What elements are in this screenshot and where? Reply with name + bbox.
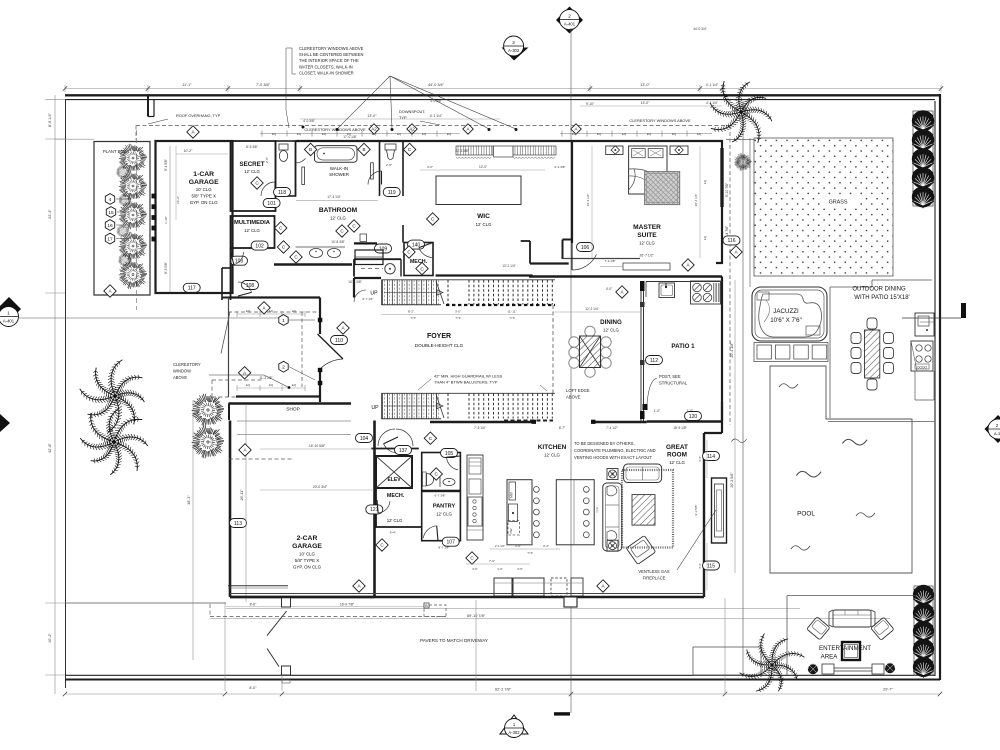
svg-text:3'-4": 3'-4"	[543, 544, 549, 548]
tag diamond A	[571, 124, 581, 134]
tag oval 113	[230, 519, 247, 528]
svg-text:A2: A2	[371, 127, 377, 132]
svg-text:EQ: EQ	[422, 132, 427, 136]
svg-text:TYP: TYP	[509, 316, 515, 320]
svg-text:10' CLG: 10' CLG	[196, 187, 213, 192]
right toilet	[385, 144, 396, 150]
right black bar + line	[961, 303, 966, 318]
section marker 2/A-401 top	[556, 7, 583, 34]
svg-text:ENTERTAINMENT: ENTERTAINMENT	[819, 645, 871, 652]
svg-text:117: 117	[188, 286, 196, 292]
svg-text:A-3: A-3	[994, 431, 1000, 436]
tag diamond C	[275, 222, 287, 234]
svg-text:10'6" X 7'6": 10'6" X 7'6"	[770, 317, 802, 324]
tag diamond C	[427, 213, 439, 225]
svg-text:EQ: EQ	[697, 132, 702, 136]
svg-text:12'-2 1/4": 12'-2 1/4"	[585, 307, 598, 311]
wc room below	[354, 258, 401, 260]
right dim col	[734, 280, 736, 573]
tag diamond A	[463, 124, 473, 134]
tag diamond A	[258, 302, 270, 314]
top dim row	[65, 88, 941, 90]
svg-text:11'-1": 11'-1"	[182, 83, 192, 87]
outdoor counter lines	[914, 371, 916, 400]
wic outer walls	[402, 141, 404, 196]
svg-text:10' CLG: 10' CLG	[299, 552, 316, 557]
stairs A centerline	[384, 292, 437, 294]
svg-text:A-302: A-302	[508, 730, 520, 735]
svg-text:18'-9 1/8": 18'-9 1/8"	[673, 426, 686, 430]
svg-text:17'-4 1/4": 17'-4 1/4"	[327, 195, 340, 199]
tag oval 119	[383, 188, 400, 197]
svg-text:WATER CLOSETS, WALK-IN: WATER CLOSETS, WALK-IN	[299, 64, 353, 69]
svg-text:FOYER: FOYER	[427, 333, 451, 340]
svg-text:102: 102	[255, 243, 264, 249]
tag diamond C	[403, 143, 415, 155]
svg-text:SHOP: SHOP	[286, 407, 300, 413]
kitchen north wall	[647, 420, 722, 422]
EQ tick row master	[560, 133, 712, 135]
svg-text:EQ: EQ	[292, 383, 297, 387]
great room east wall	[703, 433, 705, 597]
dining table	[569, 337, 579, 347]
svg-text:9'-3 5/8": 9'-3 5/8"	[694, 505, 698, 516]
svg-text:26'-11": 26'-11"	[240, 489, 244, 501]
svg-text:22'-3 3/8": 22'-3 3/8"	[455, 149, 468, 153]
svg-text:CLERESTORY WINDOWS ABOVE: CLERESTORY WINDOWS ABOVE	[304, 127, 366, 132]
svg-text:8'-0": 8'-0"	[249, 686, 257, 690]
tag oval 104	[356, 434, 373, 443]
sofa left chaise	[603, 483, 622, 551]
bathroom south wall	[274, 263, 352, 265]
dim line left column	[54, 95, 56, 694]
svg-text:MASTER: MASTER	[633, 224, 661, 231]
svg-text:12' CLG: 12' CLG	[669, 460, 685, 465]
tag diamond A	[353, 580, 365, 592]
svg-text:10'-8 3/8": 10'-8 3/8"	[331, 240, 344, 244]
svg-text:CLERESTORY: CLERESTORY	[173, 362, 201, 367]
secret door arc	[261, 182, 275, 196]
svg-text:1: 1	[513, 722, 516, 727]
svg-text:12' CLG: 12' CLG	[436, 512, 452, 517]
mech2 room	[376, 489, 422, 528]
svg-text:UP: UP	[371, 405, 379, 411]
grass area	[754, 138, 893, 276]
roof overhang dashed outline	[136, 125, 726, 127]
loft edge dashed	[552, 305, 554, 393]
svg-text:EQ: EQ	[672, 132, 677, 136]
kitchen rear dims	[466, 563, 530, 565]
svg-text:SECRET: SECRET	[239, 161, 264, 168]
svg-text:GYP. ON CLG: GYP. ON CLG	[293, 565, 322, 570]
garage1 door jamb blocks	[152, 194, 157, 199]
section marker 1/A-401 left	[0, 297, 21, 327]
dashed rect B bottom	[424, 605, 446, 616]
svg-text:2-CAR: 2-CAR	[297, 535, 318, 542]
svg-text:MECH.: MECH.	[410, 259, 428, 265]
svg-text:6'-7 3/8": 6'-7 3/8"	[435, 494, 446, 498]
entry court dims	[237, 313, 305, 315]
property line right outer (thick)	[939, 94, 941, 680]
svg-text:8'-5 1/4": 8'-5 1/4"	[48, 112, 52, 127]
svg-text:EQ: EQ	[447, 132, 452, 136]
section line end bar	[554, 712, 570, 715]
tag oval 109	[375, 244, 392, 253]
svg-text:12' CLG: 12' CLG	[244, 228, 260, 233]
svg-text:EQ: EQ	[272, 132, 277, 136]
mech upper room	[404, 243, 433, 276]
tag oval 115	[703, 561, 720, 570]
right side yard lines	[742, 101, 744, 675]
hall walls below multimedia	[230, 248, 232, 300]
svg-text:7'-3 1/8": 7'-3 1/8"	[605, 259, 616, 263]
svg-text:4: 4	[109, 197, 112, 203]
svg-text:EQ: EQ	[597, 132, 602, 136]
tag oval 105	[441, 449, 458, 458]
tag diamond A	[730, 246, 742, 258]
svg-text:12' CLG: 12' CLG	[244, 169, 260, 174]
left yard dim verticals	[192, 400, 194, 660]
stairs A heavy dashed loft edge	[446, 304, 555, 306]
svg-text:18'-4 1/4": 18'-4 1/4"	[586, 194, 590, 207]
svg-text:MULTIMEDIA: MULTIMEDIA	[234, 220, 271, 226]
garage1 top dim	[176, 153, 228, 155]
svg-text:7'-0": 7'-0"	[489, 559, 495, 563]
svg-text:JACUZZI: JACUZZI	[773, 308, 799, 315]
tag diamond C	[290, 251, 302, 263]
tag diamond B	[304, 143, 316, 155]
palm left lower	[67, 391, 165, 490]
wic south walls stepped	[436, 274, 533, 276]
jacuzzi outer	[752, 287, 827, 341]
plant box outline	[94, 142, 150, 296]
master south wall	[563, 258, 641, 260]
master window east	[723, 148, 725, 207]
svg-text:GARAGE: GARAGE	[292, 543, 322, 550]
svg-text:101: 101	[267, 201, 276, 207]
svg-text:22'-4": 22'-4"	[48, 209, 52, 219]
wall piece left of entry	[222, 297, 232, 299]
svg-text:10'-2": 10'-2"	[184, 149, 193, 153]
kitchen rear counters	[494, 578, 512, 596]
svg-text:3'-6": 3'-6"	[515, 544, 521, 548]
svg-text:TYP: TYP	[455, 316, 461, 320]
svg-text:TO BE DESIGNED BY OTHERS,: TO BE DESIGNED BY OTHERS,	[574, 441, 635, 446]
tag oval 102	[251, 241, 268, 250]
1-car garage walls	[156, 141, 233, 293]
tag hexagon 16	[105, 220, 114, 231]
svg-text:EQ: EQ	[397, 132, 402, 136]
kitchen island 2	[556, 480, 594, 545]
patio1 kitchenette counter line	[646, 281, 722, 283]
speaker symbols	[607, 469, 618, 480]
post black	[643, 404, 648, 410]
wic mid rect	[494, 146, 514, 157]
svg-text:20'-4 1/8": 20'-4 1/8"	[730, 342, 734, 358]
svg-text:6'-4": 6'-4"	[390, 531, 396, 535]
tag diamond C	[424, 432, 436, 444]
sofa top	[624, 464, 662, 483]
tag hexagon 15	[106, 207, 115, 218]
powder room	[422, 453, 461, 491]
svg-text:4'-1 1/4": 4'-1 1/4"	[706, 83, 719, 87]
tag diamond C	[348, 220, 360, 232]
shop top wall	[229, 402, 352, 404]
svg-text:ROOM: ROOM	[667, 452, 687, 459]
svg-text:B: B	[362, 147, 365, 152]
svg-text:SUITE: SUITE	[637, 232, 657, 239]
svg-text:13'-0": 13'-0"	[641, 101, 650, 105]
entertainment boundary	[787, 595, 915, 597]
svg-text:137: 137	[399, 448, 408, 454]
svg-text:26'-7 1/2": 26'-7 1/2"	[640, 254, 655, 258]
svg-text:3'-4": 3'-4"	[698, 456, 702, 462]
master suite walls	[572, 141, 722, 263]
svg-text:21'-3": 21'-3"	[176, 196, 180, 204]
palm bottom right	[731, 625, 811, 700]
mech door arc	[419, 248, 433, 258]
svg-text:62'-2 7/8": 62'-2 7/8"	[495, 688, 512, 692]
patio1 kitchenette sink	[659, 283, 675, 298]
svg-text:10'-8 3/8": 10'-8 3/8"	[348, 280, 361, 284]
tag oval 116	[723, 236, 740, 245]
svg-text:EQ: EQ	[269, 383, 274, 387]
wc nook walls	[276, 141, 296, 196]
svg-text:7'-0 3/8": 7'-0 3/8"	[256, 83, 271, 87]
svg-text:2'-8": 2'-8"	[265, 157, 269, 163]
svg-text:SHALL BE CENTERED BETWEEN: SHALL BE CENTERED BETWEEN	[299, 52, 363, 57]
garage2 inner top line	[237, 420, 351, 422]
right edge section arrow	[985, 415, 1000, 443]
left black arrow marker	[0, 414, 10, 432]
svg-text:104: 104	[360, 436, 369, 442]
svg-text:TYP: TYP	[527, 551, 533, 555]
svg-text:13'-0": 13'-0"	[367, 114, 377, 118]
svg-text:EQ: EQ	[297, 132, 302, 136]
svg-text:2: 2	[512, 40, 515, 45]
dashed line in garage2	[229, 458, 293, 460]
svg-text:118: 118	[278, 190, 286, 196]
kitchen island 1	[507, 480, 532, 545]
tag hexagon 17	[105, 233, 114, 244]
tag diamond C	[430, 468, 442, 480]
tag diamond A	[187, 126, 199, 138]
wic hanger strips	[456, 146, 493, 155]
svg-text:OUTDOOR DINING: OUTDOOR DINING	[852, 287, 906, 293]
svg-text:4'-0 3/8": 4'-0 3/8"	[430, 99, 442, 103]
svg-text:ABOVE: ABOVE	[566, 395, 581, 400]
svg-text:MECH.: MECH.	[387, 493, 405, 499]
svg-text:EQ: EQ	[572, 132, 577, 136]
svg-text:8'-7 1/8": 8'-7 1/8"	[439, 546, 450, 550]
svg-text:GRASS: GRASS	[829, 200, 848, 206]
outdoor dining table	[865, 330, 880, 378]
svg-text:44'-0 3/4": 44'-0 3/4"	[428, 83, 445, 87]
svg-text:ELEV: ELEV	[387, 477, 401, 483]
svg-text:29'-7": 29'-7"	[883, 688, 893, 692]
kitchen west tall cabinet	[467, 455, 483, 540]
svg-text:CLERESTORY WINDOWS ABOVE: CLERESTORY WINDOWS ABOVE	[299, 46, 364, 51]
hall double door arcs	[378, 429, 395, 446]
east wall window dims	[706, 440, 708, 478]
shower right wall	[379, 141, 381, 196]
multimedia room walls	[231, 216, 275, 248]
svg-text:AREA: AREA	[821, 654, 839, 661]
tag diamond A	[104, 285, 116, 297]
svg-text:PAVERS TO MATCH DRIVEWAY: PAVERS TO MATCH DRIVEWAY	[420, 638, 488, 643]
ent coffee table	[842, 642, 860, 660]
svg-text:EQ: EQ	[246, 309, 251, 313]
svg-text:VENTING HOODS WITH EXACT LAYOU: VENTING HOODS WITH EXACT LAYOUT	[574, 455, 652, 460]
wc toilet	[279, 144, 288, 150]
svg-text:114: 114	[707, 454, 715, 460]
clerestory note leaders	[337, 76, 390, 129]
svg-text:GREAT: GREAT	[666, 444, 688, 451]
svg-text:8'-2": 8'-2"	[408, 310, 414, 314]
svg-text:WIC: WIC	[477, 213, 490, 220]
svg-text:UP: UP	[370, 291, 378, 297]
svg-text:106: 106	[581, 245, 590, 251]
tag oval 108	[242, 281, 259, 290]
outdoor grill	[911, 341, 933, 371]
palm left upper	[73, 353, 151, 437]
rear terrace line	[65, 602, 226, 604]
tag diamond B	[358, 143, 370, 155]
master rug	[645, 172, 680, 205]
svg-text:119: 119	[388, 190, 396, 196]
svg-text:POOL: POOL	[797, 511, 815, 518]
svg-text:17'-0 1/8": 17'-0 1/8"	[343, 135, 356, 139]
tag diamond A	[238, 367, 250, 379]
svg-text:38'-3": 38'-3"	[187, 495, 191, 505]
tag diamond A	[616, 286, 628, 298]
patio1 divider wall (window wall)	[640, 281, 642, 421]
fireplace	[712, 478, 727, 543]
linen closet	[355, 250, 383, 265]
svg-text:TYP: TYP	[399, 115, 407, 120]
tag oval 110	[331, 336, 348, 345]
svg-text:DW: DW	[509, 528, 513, 533]
svg-text:BATHROOM: BATHROOM	[319, 207, 358, 214]
svg-text:DINING: DINING	[600, 319, 622, 326]
svg-text:12' CLG: 12' CLG	[639, 241, 655, 246]
svg-text:EQ: EQ	[292, 309, 297, 313]
svg-text:120: 120	[689, 414, 698, 420]
tag diamond A2	[369, 124, 379, 134]
svg-text:EQ: EQ	[372, 132, 377, 136]
svg-text:8'-5 3/8": 8'-5 3/8"	[246, 145, 258, 149]
hall door arc at foyer	[384, 444, 399, 453]
front door	[318, 334, 344, 359]
svg-text:5/8" TYPE X: 5/8" TYPE X	[191, 194, 215, 199]
svg-text:VENTLESS GAS: VENTLESS GAS	[638, 569, 669, 574]
svg-text:1: 1	[7, 311, 10, 316]
svg-text:EQ: EQ	[322, 132, 327, 136]
foyer north wall	[354, 277, 381, 279]
plant box starburst shrubs	[119, 144, 147, 172]
svg-text:2'-6": 2'-6"	[386, 163, 392, 167]
tag hexagon 2	[279, 361, 288, 372]
pool outline	[770, 366, 912, 573]
master interior dim lines	[591, 146, 593, 258]
tag diamond A	[682, 259, 694, 271]
tag oval 118	[274, 188, 291, 197]
gate diagonals	[267, 611, 287, 636]
bathroom inner fixture	[360, 234, 367, 242]
plant box dashed centerline	[136, 130, 138, 310]
svg-text:1'-0": 1'-0"	[497, 567, 503, 571]
coffee table	[632, 495, 655, 525]
svg-text:116: 116	[728, 238, 736, 244]
stairs dims	[381, 314, 553, 316]
tag diamond C	[376, 539, 388, 551]
tag diamond C	[403, 246, 415, 258]
svg-text:3'-0": 3'-0"	[455, 310, 461, 314]
bottom dim rows	[226, 608, 800, 610]
svg-text:8'-7": 8'-7"	[559, 426, 565, 430]
ent chairs	[807, 617, 830, 640]
entry court jamb blocks	[318, 318, 323, 322]
svg-text:TYP: TYP	[596, 507, 600, 513]
svg-text:4'-0": 4'-0"	[606, 287, 612, 291]
svg-text:11'-11": 11'-11"	[508, 310, 517, 314]
property line bottom thin	[65, 674, 935, 676]
svg-text:ROOF OVERHANG, TYP: ROOF OVERHANG, TYP	[176, 113, 221, 118]
svg-text:16: 16	[107, 223, 113, 229]
svg-text:4'-0 3/8": 4'-0 3/8"	[303, 119, 315, 123]
stairs B lower run	[382, 392, 556, 394]
svg-text:EQ: EQ	[647, 132, 652, 136]
svg-text:B: B	[309, 147, 312, 152]
bathroom outer walls	[296, 140, 404, 142]
svg-text:THE INTERIOR SPACE OF THE: THE INTERIOR SPACE OF THE	[299, 58, 359, 63]
tag diamond C	[466, 552, 478, 564]
svg-text:8'-6": 8'-6"	[250, 603, 258, 607]
svg-text:A-401: A-401	[564, 22, 576, 27]
svg-text:SHOWER: SHOWER	[329, 172, 349, 177]
svg-text:A-302: A-302	[508, 48, 520, 53]
svg-text:COORDINATE PLUMBING, ELECTRIC: COORDINATE PLUMBING, ELECTRIC AND	[574, 448, 656, 453]
svg-text:A-401: A-401	[3, 319, 15, 324]
tag diamond C	[277, 241, 289, 253]
svg-text:13'-2 1/4": 13'-2 1/4"	[502, 264, 515, 268]
svg-text:3'-4": 3'-4"	[698, 563, 702, 569]
tag oval 120	[685, 412, 702, 421]
tag oval 114	[703, 452, 720, 461]
svg-text:8'-4 5/8": 8'-4 5/8"	[164, 159, 168, 171]
svg-text:EQ: EQ	[703, 235, 707, 240]
small starburst plant right	[734, 153, 751, 171]
tag diamond A	[337, 322, 349, 334]
svg-text:EQ: EQ	[622, 132, 627, 136]
svg-text:WINDOW: WINDOW	[173, 369, 191, 374]
master door arc	[572, 254, 597, 270]
svg-text:42'-8": 42'-8"	[48, 443, 52, 453]
svg-text:MW: MW	[510, 492, 514, 498]
svg-text:20'-0 3/4": 20'-0 3/4"	[313, 485, 328, 489]
tv console	[822, 664, 834, 674]
svg-text:12' CLG: 12' CLG	[387, 518, 403, 523]
svg-text:113: 113	[234, 521, 242, 527]
property wall notch at plant box	[147, 95, 149, 117]
svg-text:9'-10 7/8": 9'-10 7/8"	[725, 182, 729, 197]
svg-text:GYP. ON CLG: GYP. ON CLG	[190, 200, 219, 205]
svg-text:ABOVE: ABOVE	[173, 375, 187, 380]
section marker 1/A-302 bottom	[500, 715, 528, 738]
svg-text:LOFT EDGE: LOFT EDGE	[566, 388, 590, 393]
garage1 inner dim line	[169, 146, 171, 292]
svg-text:12'-0": 12'-0"	[479, 165, 487, 169]
